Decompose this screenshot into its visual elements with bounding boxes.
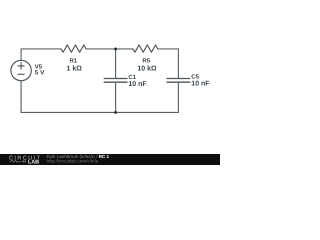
resistor R1 — [61, 45, 86, 52]
svg-text:R5: R5 — [142, 58, 150, 65]
wire V5 bottom to bottom rail — [20, 81, 22, 113]
svg-text:10 kΩ: 10 kΩ — [137, 64, 157, 72]
svg-text:C1: C1 — [128, 74, 136, 81]
logo zigzag — [10, 160, 21, 163]
svg-text:R1: R1 — [69, 58, 77, 65]
resistor R5 — [133, 45, 158, 52]
wire node A down to C1 — [115, 49, 117, 79]
svg-text:10 nF: 10 nF — [128, 81, 147, 88]
wire R1 to node A — [86, 48, 116, 50]
wire node A to R5 — [116, 48, 133, 50]
wire C5 bottom to bottom rail — [177, 82, 179, 112]
svg-text:10 nF: 10 nF — [191, 81, 210, 88]
wire bottom rail — [21, 111, 178, 113]
bottom junction dot — [114, 111, 117, 114]
wire top-left from V5 to R1 — [21, 49, 61, 61]
svg-text:1 kΩ: 1 kΩ — [67, 64, 83, 72]
wire R5 to top-right corner down to C5 — [158, 49, 179, 79]
capacitor C5 — [167, 79, 190, 83]
footer bar — [0, 154, 220, 165]
CircuitLab logo wordmark — [9, 155, 41, 165]
svg-text:5 V: 5 V — [35, 70, 45, 77]
voltage source V5 — [11, 60, 31, 80]
node A junction dot — [114, 47, 117, 50]
logo cap symbol — [21, 160, 27, 163]
svg-text:C5: C5 — [191, 73, 199, 80]
wire C1 bottom to bottom rail — [115, 82, 117, 112]
capacitor C1 — [104, 79, 127, 83]
svg-text:http://circuitlab.com/c/krla: http://circuitlab.com/c/krla — [47, 158, 99, 163]
svg-text:LAB: LAB — [28, 159, 39, 165]
